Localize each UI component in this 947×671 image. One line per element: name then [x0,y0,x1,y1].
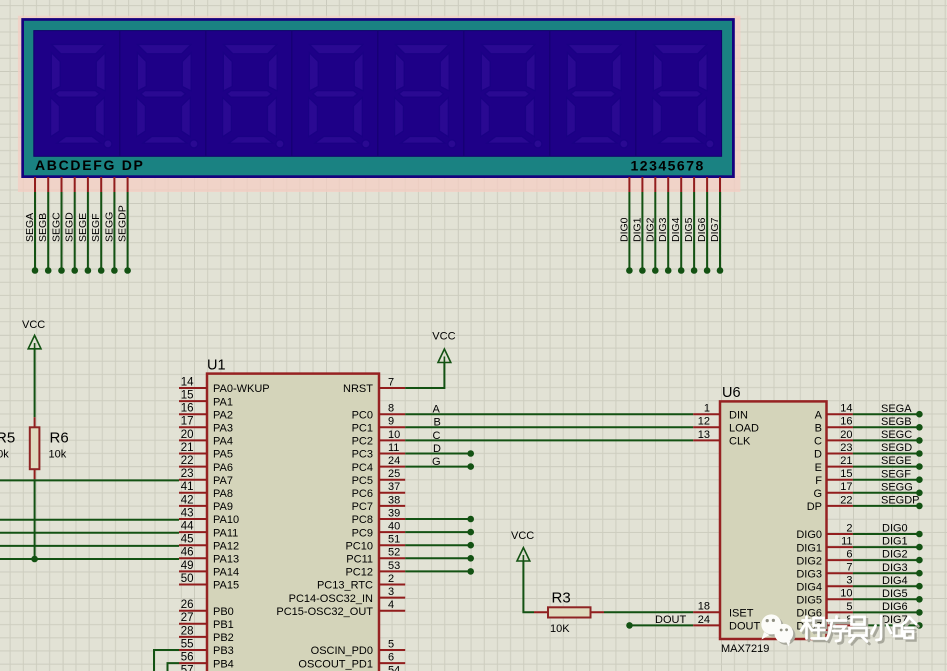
svg-text:U6: U6 [722,385,741,401]
svg-text:12345678: 12345678 [631,157,705,173]
svg-text:PC2: PC2 [352,436,373,448]
svg-text:50: 50 [181,573,194,585]
display outer navy frame [21,18,735,178]
svg-text:DIG1: DIG1 [631,217,643,242]
svg-text:PC8: PC8 [352,514,373,526]
svg-text:DIG6: DIG6 [882,601,908,613]
U1 pin 25 PC5 [379,479,405,481]
svg-text:DIG7: DIG7 [709,217,721,242]
svg-text:PB1: PB1 [213,619,234,631]
U1 pin 56 PB4 [179,662,207,664]
svg-text:1: 1 [704,403,710,415]
U6 pin 6 DIG2 [827,559,853,561]
svg-text:25: 25 [388,468,400,480]
svg-text:DIG5: DIG5 [796,595,822,607]
display teal bezel [24,21,732,176]
svg-text:NRST: NRST [343,383,373,395]
wire DIG4 [680,192,682,271]
display pin SEGE (red stub) [87,177,89,192]
svg-text:C: C [433,430,441,442]
wire SEGG [113,192,115,271]
node DIG1 net [916,544,923,551]
power symbol VCC (R3) [517,548,530,561]
U1 pin 39 PC8 [379,518,405,520]
U1 pin 11 PC3 [379,453,405,455]
U6 pin 21 E [827,466,853,468]
wire SEGF [100,192,102,271]
node PC10 [467,542,474,549]
svg-text:6: 6 [388,652,394,664]
display pin DIG6 (red stub) [706,177,708,192]
display digit 6 [481,45,542,148]
U1 pin 20 PA4 [179,439,207,441]
svg-text:CLK: CLK [729,436,751,448]
wire DIG0 net [853,533,920,535]
svg-text:14: 14 [181,376,194,388]
svg-text:D: D [433,443,441,455]
svg-text:16: 16 [181,403,194,415]
svg-text:16: 16 [840,416,852,428]
svg-text:52: 52 [388,547,400,559]
display pin SEGC (red stub) [61,177,63,192]
display pin SEGA (red stub) [34,177,36,192]
U6 pin 3 DIG4 [827,585,853,587]
svg-text:DIG0: DIG0 [796,529,822,541]
svg-text:DIG4: DIG4 [670,217,682,242]
svg-text:22: 22 [181,455,194,467]
resistor R3 [534,611,604,613]
svg-text:PC11: PC11 [346,554,373,566]
svg-text:DP: DP [807,501,822,513]
U1 pin 37 PC6 [379,492,405,494]
svg-text:44: 44 [181,521,194,533]
wire SEGDP [853,505,920,507]
U1 pin 14 PA0-WKUP [179,387,207,389]
wire DIG7 net [853,624,920,626]
display pin SEGF (red stub) [100,177,102,192]
wire DIG6 [706,192,708,271]
svg-text:24: 24 [388,455,400,467]
U1 pin 21 PA5 [179,453,207,455]
svg-text:PA2: PA2 [213,409,233,421]
U1 pin 40 PC9 [379,531,405,533]
svg-text:SEGB: SEGB [37,213,49,242]
svg-text:PA13: PA13 [213,554,239,566]
svg-text:PA6: PA6 [213,462,233,474]
node PC12 [467,568,474,575]
display pin DIG2 (red stub) [654,177,656,192]
wire SEGG [853,492,920,494]
node DIG4 net [916,583,923,590]
svg-text:57: 57 [181,665,194,671]
svg-text:ISET: ISET [729,608,754,620]
U6 pin 22 DP [827,505,853,507]
U1 pin 42 PA9 [179,505,207,507]
wire PA7 from left edge [0,479,179,481]
U6 pin 13 CLK [693,439,720,441]
wire DIG5 [693,192,695,271]
svg-text:6: 6 [846,549,852,561]
svg-text:46: 46 [181,547,194,559]
node SEGB [916,424,923,431]
svg-text:37: 37 [388,481,400,493]
svg-text:13: 13 [698,429,710,441]
svg-text:PC12: PC12 [345,567,373,579]
wire SEGDP [127,192,129,271]
wire PA12 from left edge [0,545,179,547]
display pin DIG1 (red stub) [641,177,643,192]
wire C (U1 to U6) [405,439,693,441]
svg-text:27: 27 [181,612,194,624]
U1 pin 27 PB1 [179,623,207,625]
wire PC11 [405,557,471,559]
watermark wechat logo + text [761,614,918,646]
U6 pin 12 LOAD [693,426,720,428]
svg-text:R5: R5 [0,430,15,447]
wire SEGE [87,192,89,271]
svg-text:23: 23 [840,442,852,454]
U1 pin 45 PA12 [179,544,207,546]
wire DIG6 net [853,611,920,613]
svg-text:51: 51 [388,534,400,546]
svg-text:PC6: PC6 [352,488,373,500]
svg-text:56: 56 [181,652,194,664]
U1 pin 43 PA10 [179,518,207,520]
wire PC10 [405,544,471,546]
digit cell separators [120,31,636,156]
U1 pin 26 PB0 [179,610,207,612]
display digit 5 [395,45,456,148]
svg-text:F: F [815,475,822,487]
node PC9 [467,529,474,536]
svg-text:PA8: PA8 [213,488,233,500]
resistor R6 [34,417,36,479]
svg-text:DIG6: DIG6 [696,217,708,242]
svg-text:10k: 10k [0,449,9,461]
node D [467,450,474,457]
U1 pin 52 PC11 [379,557,405,559]
U1 pin 7 NRST [379,387,405,389]
svg-text:10: 10 [840,588,852,600]
wire DIG3 net [853,572,920,574]
svg-text:SEGD: SEGD [881,442,912,454]
svg-text:SEGDP: SEGDP [117,205,129,242]
svg-text:5: 5 [388,638,394,650]
U6 pin 7 DIG3 [827,572,853,574]
node DIG3 [665,267,672,274]
U1 pin 16 PA2 [179,413,207,415]
node SEGC [916,437,923,444]
wire DIG2 [654,192,656,271]
node DIG7 net [916,622,923,629]
svg-text:PB3: PB3 [213,645,234,657]
svg-text:ABCDEFG DP: ABCDEFG DP [35,157,145,173]
wire PB3 [154,650,179,671]
node PC11 [467,555,474,562]
wire PA10 from left edge [0,519,179,521]
svg-text:5: 5 [846,601,852,613]
node DIG6 [704,267,711,274]
svg-text:PC14-OSC32_IN: PC14-OSC32_IN [289,593,373,605]
svg-text:24: 24 [698,614,710,626]
svg-text:PA3: PA3 [213,423,233,435]
svg-text:SEGG: SEGG [881,481,913,493]
svg-text:PA15: PA15 [213,580,239,592]
svg-text:DIG2: DIG2 [882,549,908,561]
node PC8 [467,516,474,523]
wire DIG1 [641,192,643,271]
svg-text:DIG4: DIG4 [882,575,908,587]
U1 pin 41 PA8 [179,492,207,494]
node SEGG [111,267,118,274]
U1 pin 23 PA7 [179,479,207,481]
svg-text:SEGF: SEGF [881,468,911,480]
svg-text:B: B [815,423,822,435]
svg-text:PA0-WKUP: PA0-WKUP [213,383,270,395]
svg-text:SEGB: SEGB [881,416,912,428]
svg-text:PC10: PC10 [345,540,373,552]
wire DIG0 [628,192,630,271]
svg-text:49: 49 [181,560,194,572]
svg-text:39: 39 [388,507,400,519]
U1 pin 53 PC12 [379,570,405,572]
power symbol VCC (top-left) [28,335,41,348]
node DIG1 [639,267,646,274]
wire G [405,466,471,468]
svg-text:23: 23 [181,468,194,480]
U1 pin 2 PC13_RTC [379,584,405,586]
node SEGD [916,450,923,457]
node SEGA [916,411,923,418]
svg-text:SEGDP: SEGDP [881,495,920,507]
wire SEGD [853,453,920,455]
U1 pin 38 PC7 [379,505,405,507]
svg-text:26: 26 [181,599,194,611]
wire SEGA [853,413,920,415]
U1 pin 49 PA14 [179,570,207,572]
svg-text:7: 7 [846,562,852,574]
svg-text:A: A [815,409,823,421]
svg-text:PA7: PA7 [213,475,233,487]
svg-text:VCC: VCC [511,530,534,542]
display digit 3 [223,45,284,148]
U6 pin 20 C [827,439,853,441]
U1 pin 22 PA6 [179,466,207,468]
svg-text:38: 38 [388,494,400,506]
svg-text:VCC: VCC [22,319,45,331]
U6 pin 11 DIG1 [827,546,853,548]
U6 pin 5 DIG6 [827,611,853,613]
svg-text:DIG2: DIG2 [644,217,656,242]
svg-text:3: 3 [388,586,394,598]
display pin DIG0 (red stub) [628,177,630,192]
display dark screen area [34,31,722,157]
wire R6 to PA13 net [34,479,36,559]
wire SEGB [853,426,920,428]
wire NRST to VCC [405,363,444,389]
svg-text:DIG3: DIG3 [657,217,669,242]
svg-text:40: 40 [388,521,400,533]
svg-text:DIG1: DIG1 [796,542,822,554]
svg-text:DIG2: DIG2 [796,555,822,567]
wire DIG1 net [853,546,920,548]
IC U6 (MAX7219) body [720,401,827,639]
svg-text:41: 41 [181,481,194,493]
U1 pin 8 PC0 [379,413,405,415]
svg-text:DIG0: DIG0 [618,217,630,242]
node DIG2 net [916,557,923,564]
svg-text:18: 18 [698,601,710,613]
U1 pin 50 PA15 [179,584,207,586]
svg-text:17: 17 [840,481,852,493]
svg-text:17: 17 [181,416,194,428]
svg-text:SEGA: SEGA [24,213,36,242]
wire SEGE [853,466,920,468]
node DIG7 [717,267,724,274]
svg-text:53: 53 [388,560,400,572]
U6 pin 24 DOUT [693,624,720,626]
wire PC8 [405,518,471,520]
wire B (U1 to U6) [405,426,693,428]
node G [467,463,474,470]
U1 pin 24 PC4 [379,466,405,468]
IC U1 (microcontroller) body [207,374,379,671]
node SEGB [45,267,52,274]
wire PB4 [168,663,180,671]
node DIG2 [652,267,659,274]
U1 pin 15 PA1 [179,400,207,402]
U1 pin 44 PA11 [179,531,207,533]
node SEGE [916,463,923,470]
svg-text:PA12: PA12 [213,540,239,552]
U1 pin 9 PC1 [379,426,405,428]
svg-text:12: 12 [698,416,710,428]
U6 pin 2 DIG0 [827,533,853,535]
U1 pin 4 PC15-OSC32_OUT [379,610,405,612]
wire DIG5 net [853,598,920,600]
svg-text:54: 54 [388,665,400,671]
node SEGF [98,267,105,274]
U6 pin 16 B [827,426,853,428]
display digit 7 [567,45,628,148]
svg-text:OSCIN_PD0: OSCIN_PD0 [311,645,373,657]
node SEGDP [124,267,131,274]
svg-text:PA5: PA5 [213,449,233,461]
svg-text:PA1: PA1 [213,396,233,408]
svg-text:PB2: PB2 [213,632,234,644]
junction node on PA13 wire [31,556,38,563]
U6 pin 18 ISET [693,611,720,613]
svg-text:U1: U1 [207,357,226,373]
svg-text:10: 10 [388,429,400,441]
U1 pin 28 PB2 [179,636,207,638]
svg-text:DIG3: DIG3 [882,562,908,574]
svg-text:A: A [433,404,441,416]
svg-text:PA9: PA9 [213,501,233,513]
node SEGA [32,267,39,274]
svg-text:G: G [813,488,822,500]
svg-text:15: 15 [840,468,852,480]
wire VCC to R3 [523,561,534,612]
svg-text:3: 3 [846,575,852,587]
svg-text:LOAD: LOAD [729,423,759,435]
svg-text:G: G [432,456,441,468]
U1 pin 5 OSCIN_PD0 [379,649,405,651]
svg-text:PB0: PB0 [213,606,234,618]
wire SEGC [853,439,920,441]
wire DIG2 net [853,559,920,561]
wire A (U1 to U6) [405,413,693,415]
wire PA11 from left edge [0,532,179,534]
node SEGDP [916,503,923,510]
svg-text:10k: 10k [49,449,67,461]
node DIG3 net [916,570,923,577]
svg-text:PC13_RTC: PC13_RTC [317,580,373,592]
wire DIG3 [667,192,669,271]
U1 pin 6 OSCOUT_PD1 [379,662,405,664]
wire R3 to ISET [604,611,693,613]
svg-text:42: 42 [181,494,194,506]
svg-text:C: C [814,436,822,448]
svg-text:7: 7 [388,376,394,388]
node DOUT [626,622,633,629]
node SEGE [85,267,92,274]
svg-text:45: 45 [181,534,194,546]
U1 pin 10 PC2 [379,439,405,441]
U1 pin 51 PC10 [379,544,405,546]
svg-text:SEGF: SEGF [90,213,102,242]
power symbol VCC (NRST) [438,349,451,363]
U6 pin 1 DIN [693,413,720,415]
node SEGC [58,267,65,274]
node DIG0 [626,267,633,274]
svg-text:D: D [814,449,822,461]
node DIG5 [691,267,698,274]
display digit 4 [309,45,370,148]
U6 pin 17 G [827,492,853,494]
svg-text:DIN: DIN [729,409,748,421]
wire PA13 from left edge [0,558,179,560]
svg-text:10K: 10K [550,623,570,635]
svg-text:14: 14 [840,403,852,415]
node DIG6 net [916,609,923,616]
display pin DIG5 (red stub) [693,177,695,192]
svg-text:PC4: PC4 [352,462,373,474]
svg-text:8: 8 [388,403,394,415]
wire DOUT [630,624,694,626]
wire VCC to R6 [34,349,36,418]
svg-text:21: 21 [181,442,194,454]
svg-text:20: 20 [181,429,194,441]
svg-text:PA14: PA14 [213,567,239,579]
svg-text:B: B [434,417,441,429]
7-segment display module: pink selection shadow [18,16,741,192]
U6 pin 23 D [827,453,853,455]
svg-text:VCC: VCC [432,330,455,342]
svg-text:DIG5: DIG5 [882,588,908,600]
svg-text:PB4: PB4 [213,658,234,670]
svg-text:2: 2 [388,573,394,585]
svg-text:SEGE: SEGE [77,213,89,242]
svg-text:4: 4 [388,599,394,611]
U1 pin 3 PC14-OSC32_IN [379,597,405,599]
svg-text:15: 15 [181,390,194,402]
svg-text:DIG1: DIG1 [882,536,908,548]
U1 pin 17 PA3 [179,426,207,428]
svg-text:PC9: PC9 [352,527,373,539]
svg-text:DIG4: DIG4 [796,581,822,593]
svg-text:PA10: PA10 [213,514,239,526]
